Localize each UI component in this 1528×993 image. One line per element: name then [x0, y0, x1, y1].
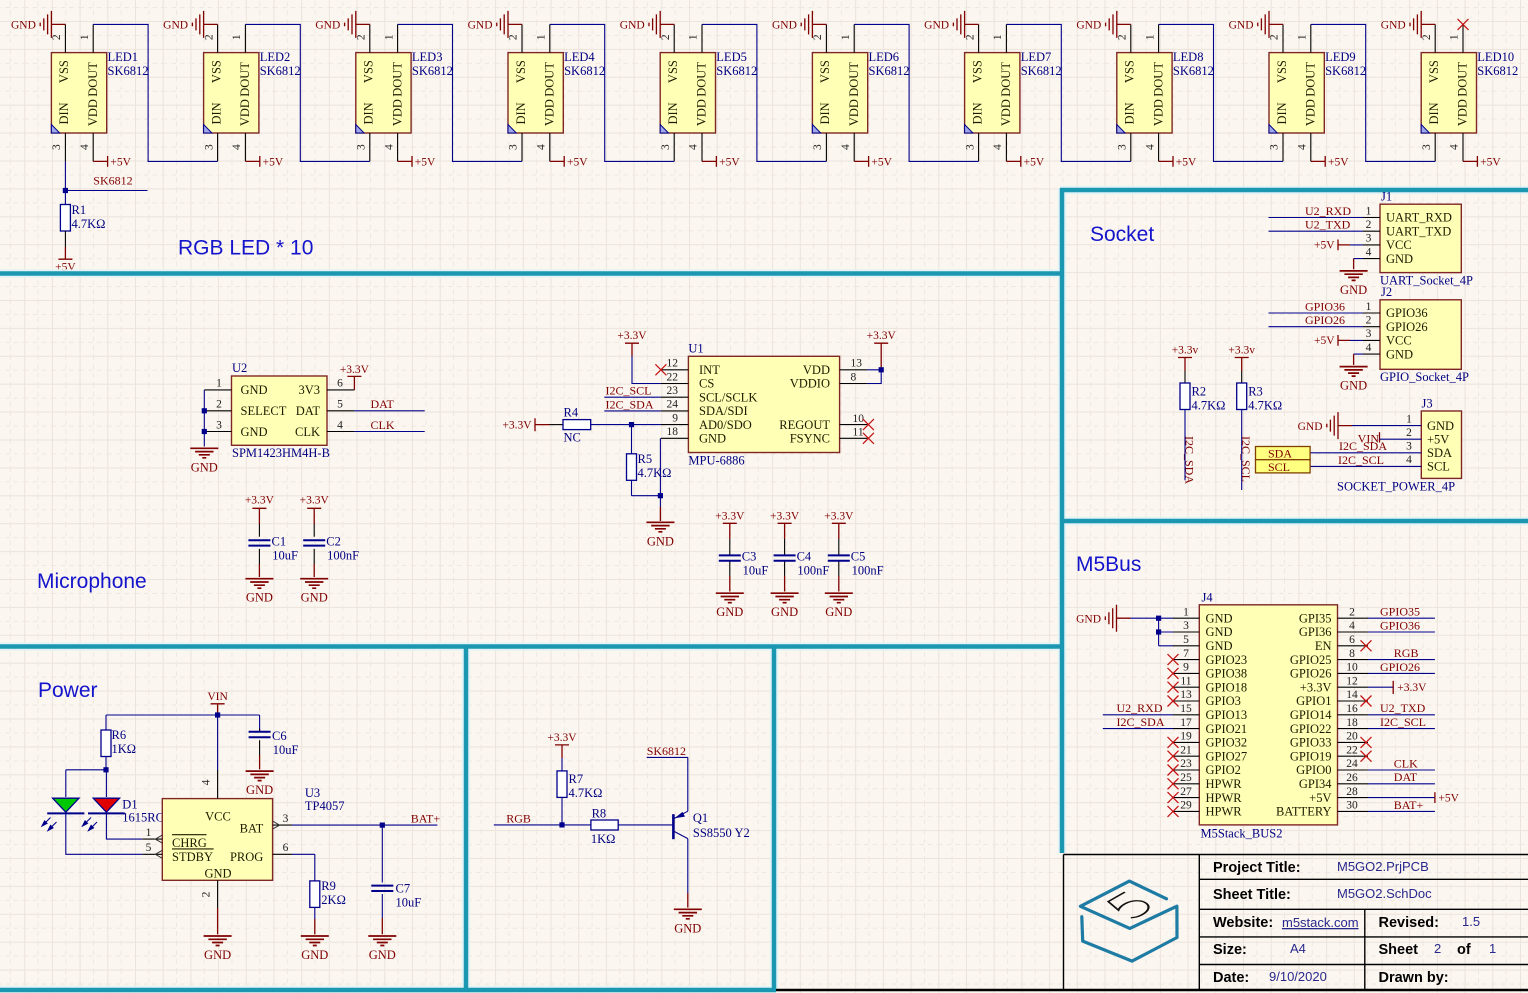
svg-text:SDA: SDA — [1427, 446, 1452, 460]
svg-text:25: 25 — [1180, 772, 1192, 784]
svg-text:2: 2 — [1366, 315, 1372, 327]
svg-text:GND: GND — [204, 867, 231, 881]
svg-text:M5Stack_BUS2: M5Stack_BUS2 — [1201, 827, 1283, 841]
svg-text:J3: J3 — [1422, 396, 1433, 410]
svg-text:3: 3 — [283, 813, 289, 825]
svg-text:2: 2 — [1406, 427, 1412, 439]
svg-text:1: 1 — [1183, 606, 1189, 618]
svg-text:100nF: 100nF — [852, 563, 884, 577]
svg-text:27: 27 — [1180, 786, 1192, 798]
svg-text:AD0/SDO: AD0/SDO — [699, 418, 752, 432]
svg-text:100nF: 100nF — [797, 563, 829, 577]
svg-text:A4: A4 — [1290, 941, 1306, 956]
svg-text:GPIO0: GPIO0 — [1296, 763, 1331, 777]
svg-text:SK6812: SK6812 — [647, 744, 686, 758]
svg-text:+3.3v: +3.3v — [1172, 345, 1199, 357]
svg-text:+3.3V: +3.3V — [502, 420, 532, 432]
svg-text:SK6812: SK6812 — [1325, 64, 1366, 78]
svg-text:SK6812: SK6812 — [564, 64, 605, 78]
svg-text:23: 23 — [1180, 758, 1192, 770]
svg-text:4.7KΩ: 4.7KΩ — [1248, 398, 1282, 412]
svg-text:+3.3V: +3.3V — [547, 732, 577, 744]
svg-text:7: 7 — [1183, 648, 1189, 660]
svg-text:GPIO35: GPIO35 — [1380, 605, 1420, 619]
svg-text:R6: R6 — [112, 728, 127, 742]
svg-text:C2: C2 — [326, 535, 341, 549]
svg-text:1KΩ: 1KΩ — [591, 832, 616, 846]
svg-text:R8: R8 — [592, 807, 607, 821]
svg-text:+5V: +5V — [1309, 791, 1331, 805]
svg-text:GPIO21: GPIO21 — [1206, 722, 1248, 736]
svg-text:1: 1 — [1366, 205, 1372, 217]
svg-text:GPIO18: GPIO18 — [1206, 680, 1248, 694]
svg-text:GPIO38: GPIO38 — [1206, 667, 1248, 681]
svg-text:VCC: VCC — [205, 810, 231, 824]
svg-text:23: 23 — [667, 385, 679, 397]
svg-text:SK6812: SK6812 — [260, 64, 301, 78]
svg-text:+3.3V: +3.3V — [824, 510, 854, 522]
svg-text:18: 18 — [1346, 717, 1358, 729]
svg-text:2: 2 — [216, 399, 222, 411]
svg-text:GPIO33: GPIO33 — [1290, 736, 1332, 750]
svg-text:GND: GND — [1427, 419, 1454, 433]
svg-text:19: 19 — [1180, 731, 1192, 743]
svg-text:8: 8 — [1349, 648, 1355, 660]
svg-text:1: 1 — [1366, 301, 1372, 313]
svg-text:R3: R3 — [1248, 385, 1263, 399]
svg-text:20: 20 — [1346, 731, 1358, 743]
svg-text:+3.3V: +3.3V — [867, 330, 897, 342]
svg-text:GPIO1: GPIO1 — [1296, 694, 1331, 708]
svg-text:CLK: CLK — [371, 418, 395, 432]
svg-text:I2C_SDA: I2C_SDA — [1183, 436, 1197, 484]
svg-text:+5V: +5V — [1427, 432, 1449, 446]
svg-text:12: 12 — [667, 358, 679, 370]
svg-text:LED9: LED9 — [1325, 50, 1356, 64]
svg-text:LED2: LED2 — [260, 50, 291, 64]
svg-text:+3.3V: +3.3V — [300, 495, 330, 507]
svg-text:GPIO32: GPIO32 — [1206, 736, 1248, 750]
svg-text:3: 3 — [216, 419, 222, 431]
svg-text:GPIO27: GPIO27 — [1206, 749, 1248, 763]
svg-text:10uF: 10uF — [743, 563, 769, 577]
svg-text:VDD: VDD — [803, 363, 830, 377]
svg-text:LED10: LED10 — [1477, 50, 1514, 64]
svg-text:R4: R4 — [564, 406, 579, 420]
svg-text:2: 2 — [1434, 941, 1441, 956]
svg-text:UART_Socket_4P: UART_Socket_4P — [1380, 274, 1473, 288]
svg-text:DAT: DAT — [371, 397, 395, 411]
svg-text:UART_RXD: UART_RXD — [1386, 211, 1452, 225]
svg-text:6: 6 — [283, 842, 289, 854]
svg-text:GPIO36: GPIO36 — [1305, 299, 1345, 313]
svg-text:SOCKET_POWER_4P: SOCKET_POWER_4P — [1337, 479, 1455, 493]
svg-text:BAT+: BAT+ — [1394, 798, 1424, 812]
svg-text:11: 11 — [1180, 675, 1191, 687]
svg-text:GND: GND — [1206, 625, 1233, 639]
svg-text:1: 1 — [146, 827, 152, 839]
svg-text:of: of — [1457, 942, 1471, 958]
svg-text:GPIO36: GPIO36 — [1380, 618, 1420, 632]
svg-text:SDA/SDI: SDA/SDI — [699, 404, 748, 418]
svg-text:GPIO14: GPIO14 — [1290, 708, 1332, 722]
svg-text:GPIO26: GPIO26 — [1386, 320, 1428, 334]
svg-text:13: 13 — [851, 358, 863, 370]
svg-text:+3.3V: +3.3V — [1397, 682, 1427, 694]
svg-text:10uF: 10uF — [396, 895, 422, 909]
svg-text:5: 5 — [146, 842, 152, 854]
svg-text:Power: Power — [38, 679, 98, 702]
svg-text:CLK: CLK — [1394, 756, 1418, 770]
svg-text:GPIO_Socket_4P: GPIO_Socket_4P — [1380, 370, 1469, 384]
svg-text:U2_TXD: U2_TXD — [1380, 701, 1426, 715]
svg-text:SK6812: SK6812 — [1021, 64, 1062, 78]
svg-text:GND: GND — [699, 432, 726, 446]
svg-text:5: 5 — [1183, 634, 1189, 646]
svg-text:SK6812: SK6812 — [716, 64, 757, 78]
svg-text:CLK: CLK — [295, 425, 320, 439]
svg-text:C5: C5 — [851, 550, 866, 564]
svg-text:TP4057: TP4057 — [305, 799, 345, 813]
svg-text:10uF: 10uF — [273, 743, 299, 757]
svg-text:m5stack.com: m5stack.com — [1282, 915, 1359, 930]
svg-text:SK6812: SK6812 — [93, 174, 132, 188]
svg-text:9/10/2020: 9/10/2020 — [1269, 969, 1327, 984]
svg-text:2: 2 — [1349, 606, 1355, 618]
svg-text:PROG: PROG — [230, 850, 263, 864]
svg-text:+3.3V: +3.3V — [770, 510, 800, 522]
svg-text:UART_TXD: UART_TXD — [1386, 224, 1451, 238]
svg-text:Project Title:: Project Title: — [1213, 860, 1301, 876]
svg-text:GND: GND — [241, 425, 268, 439]
svg-text:SK6812: SK6812 — [1477, 64, 1518, 78]
svg-text:GND: GND — [1386, 347, 1413, 361]
svg-text:GND: GND — [1386, 252, 1413, 266]
svg-text:SK6812: SK6812 — [108, 64, 149, 78]
svg-text:I2C_SCL: I2C_SCL — [1239, 436, 1253, 482]
svg-text:U2_RXD: U2_RXD — [1117, 701, 1163, 715]
svg-text:DAT: DAT — [1394, 770, 1418, 784]
svg-text:22: 22 — [667, 371, 679, 383]
svg-text:30: 30 — [1346, 800, 1358, 812]
svg-text:R1: R1 — [72, 203, 87, 217]
svg-text:C1: C1 — [272, 535, 287, 549]
svg-text:SCL: SCL — [1427, 460, 1450, 474]
svg-text:21: 21 — [1180, 744, 1192, 756]
svg-text:4.7KΩ: 4.7KΩ — [72, 217, 106, 231]
svg-text:I2C_SCL: I2C_SCL — [606, 384, 652, 398]
svg-text:M5GO2.SchDoc: M5GO2.SchDoc — [1337, 886, 1432, 901]
svg-text:Sheet Title:: Sheet Title: — [1213, 887, 1291, 903]
svg-text:GND: GND — [241, 383, 268, 397]
svg-text:I2C_SDA: I2C_SDA — [1339, 439, 1387, 453]
svg-text:HPWR: HPWR — [1206, 777, 1243, 791]
svg-text:GPI36: GPI36 — [1299, 625, 1332, 639]
svg-text:SDA: SDA — [1268, 447, 1292, 461]
svg-text:6: 6 — [337, 378, 343, 390]
svg-text:INT: INT — [699, 363, 720, 377]
svg-text:M5GO2.PrjPCB: M5GO2.PrjPCB — [1337, 859, 1429, 874]
svg-text:1: 1 — [1489, 941, 1496, 956]
svg-text:R9: R9 — [321, 879, 336, 893]
svg-text:2: 2 — [1366, 219, 1372, 231]
svg-text:CHRG: CHRG — [172, 836, 207, 850]
svg-text:VIN: VIN — [207, 691, 228, 703]
svg-text:HPWR: HPWR — [1206, 805, 1243, 819]
svg-text:STDBY: STDBY — [172, 850, 213, 864]
svg-text:GPIO25: GPIO25 — [1290, 653, 1332, 667]
svg-text:+3.3v: +3.3v — [1228, 345, 1255, 357]
svg-text:3V3: 3V3 — [298, 383, 320, 397]
svg-text:10uF: 10uF — [272, 548, 298, 562]
svg-text:FSYNC: FSYNC — [790, 432, 830, 446]
svg-text:I2C_SDA: I2C_SDA — [1117, 715, 1165, 729]
svg-text:LED7: LED7 — [1021, 50, 1052, 64]
svg-text:NC: NC — [564, 431, 581, 445]
svg-text:LED6: LED6 — [869, 50, 900, 64]
svg-text:Revised:: Revised: — [1379, 915, 1439, 931]
svg-text:3: 3 — [1406, 441, 1412, 453]
svg-text:+5V: +5V — [1314, 335, 1335, 347]
svg-text:GPIO22: GPIO22 — [1290, 722, 1332, 736]
svg-text:GND: GND — [1206, 611, 1233, 625]
svg-text:28: 28 — [1346, 786, 1358, 798]
svg-text:2: 2 — [201, 891, 213, 897]
svg-text:3: 3 — [1366, 233, 1372, 245]
svg-text:17: 17 — [1180, 717, 1192, 729]
svg-text:VCC: VCC — [1386, 238, 1412, 252]
svg-text:14: 14 — [1346, 689, 1358, 701]
svg-text:GPIO36: GPIO36 — [1386, 306, 1428, 320]
svg-text:I2C_SDA: I2C_SDA — [606, 397, 654, 411]
svg-text:U1: U1 — [688, 342, 703, 356]
svg-text:GPIO23: GPIO23 — [1206, 653, 1248, 667]
svg-text:24: 24 — [667, 399, 679, 411]
svg-text:BAT: BAT — [240, 822, 264, 836]
svg-text:GPIO3: GPIO3 — [1206, 694, 1241, 708]
svg-text:5: 5 — [337, 399, 343, 411]
svg-text:SK6812: SK6812 — [1173, 64, 1214, 78]
svg-text:VCC: VCC — [1386, 334, 1412, 348]
svg-text:GPIO19: GPIO19 — [1290, 749, 1332, 763]
svg-text:DAT: DAT — [296, 404, 321, 418]
svg-text:REGOUT: REGOUT — [779, 418, 830, 432]
svg-text:Drawn by:: Drawn by: — [1379, 970, 1449, 986]
svg-text:VDDIO: VDDIO — [790, 377, 830, 391]
svg-text:4: 4 — [1349, 620, 1355, 632]
svg-text:4: 4 — [337, 419, 343, 431]
svg-text:RGB: RGB — [1394, 646, 1419, 660]
svg-text:Q1: Q1 — [693, 811, 708, 825]
svg-text:C4: C4 — [797, 550, 812, 564]
svg-text:+3.3V: +3.3V — [1300, 680, 1332, 694]
svg-text:+3.3V: +3.3V — [245, 495, 275, 507]
svg-text:Socket: Socket — [1090, 223, 1154, 246]
svg-text:29: 29 — [1180, 800, 1192, 812]
svg-text:GPI35: GPI35 — [1299, 611, 1332, 625]
svg-text:SCL/SCLK: SCL/SCLK — [699, 390, 757, 404]
svg-text:C3: C3 — [742, 550, 757, 564]
svg-text:GPIO26: GPIO26 — [1305, 313, 1345, 327]
svg-text:4.7KΩ: 4.7KΩ — [1192, 398, 1226, 412]
svg-text:HPWR: HPWR — [1206, 791, 1243, 805]
svg-text:U2_TXD: U2_TXD — [1305, 218, 1351, 232]
svg-text:+3.3V: +3.3V — [715, 510, 745, 522]
svg-text:+5V: +5V — [1314, 240, 1335, 252]
svg-text:J1: J1 — [1381, 190, 1392, 204]
svg-text:26: 26 — [1346, 772, 1358, 784]
svg-text:4: 4 — [1406, 454, 1412, 466]
svg-text:+5V: +5V — [1438, 793, 1459, 805]
svg-text:1KΩ: 1KΩ — [112, 742, 137, 756]
svg-text:J4: J4 — [1202, 590, 1214, 604]
svg-text:1.5: 1.5 — [1462, 914, 1480, 929]
svg-text:MPU-6886: MPU-6886 — [688, 454, 744, 468]
svg-text:4: 4 — [1366, 246, 1372, 258]
svg-text:10: 10 — [1346, 662, 1358, 674]
svg-text:D1: D1 — [122, 798, 137, 812]
svg-text:11: 11 — [853, 427, 864, 439]
svg-text:LED1: LED1 — [108, 50, 139, 64]
svg-text:9: 9 — [1183, 662, 1189, 674]
svg-text:BAT+: BAT+ — [411, 811, 441, 825]
svg-text:4: 4 — [201, 779, 213, 785]
svg-text:RGB LED * 10: RGB LED * 10 — [178, 237, 313, 260]
svg-text:LED4: LED4 — [564, 50, 595, 64]
svg-text:U2_RXD: U2_RXD — [1305, 204, 1351, 218]
svg-text:GND: GND — [1206, 639, 1233, 653]
svg-text:SPM1423HM4H-B: SPM1423HM4H-B — [232, 446, 330, 460]
svg-text:GPI34: GPI34 — [1299, 777, 1332, 791]
svg-text:LED5: LED5 — [716, 50, 747, 64]
svg-text:U2: U2 — [232, 361, 247, 375]
svg-text:M5Bus: M5Bus — [1076, 553, 1141, 576]
svg-text:Date:: Date: — [1213, 970, 1249, 986]
svg-text:GPIO13: GPIO13 — [1206, 708, 1248, 722]
svg-text:GPIO26: GPIO26 — [1380, 660, 1420, 674]
svg-text:6: 6 — [1349, 634, 1355, 646]
svg-text:I2C_SCL: I2C_SCL — [1338, 453, 1384, 467]
svg-text:100nF: 100nF — [327, 548, 359, 562]
svg-text:+3.3V: +3.3V — [340, 364, 370, 376]
svg-text:LED3: LED3 — [412, 50, 443, 64]
svg-text:4.7KΩ: 4.7KΩ — [569, 786, 603, 800]
svg-text:16: 16 — [1346, 703, 1358, 715]
svg-text:12: 12 — [1346, 675, 1358, 687]
svg-text:1: 1 — [1406, 413, 1412, 425]
svg-text:SK6812: SK6812 — [869, 64, 910, 78]
svg-text:22: 22 — [1346, 744, 1358, 756]
svg-text:I2C_SCL: I2C_SCL — [1380, 715, 1426, 729]
svg-text:18: 18 — [667, 426, 679, 438]
svg-text:3: 3 — [1183, 620, 1189, 632]
svg-text:R5: R5 — [638, 452, 653, 466]
svg-text:+3.3V: +3.3V — [617, 330, 647, 342]
svg-text:CS: CS — [699, 377, 714, 391]
svg-text:GPIO26: GPIO26 — [1290, 667, 1332, 681]
svg-text:4: 4 — [1366, 342, 1372, 354]
svg-text:Sheet: Sheet — [1379, 942, 1419, 958]
svg-text:J2: J2 — [1381, 285, 1392, 299]
svg-text:1: 1 — [216, 378, 222, 390]
svg-text:Microphone: Microphone — [37, 570, 147, 593]
svg-text:RGB: RGB — [506, 811, 531, 825]
svg-text:SS8550 Y2: SS8550 Y2 — [693, 826, 750, 840]
svg-text:U3: U3 — [305, 786, 320, 800]
svg-text:SCL: SCL — [1268, 460, 1290, 474]
svg-text:1615RG: 1615RG — [122, 811, 164, 825]
svg-text:BATTERY: BATTERY — [1276, 805, 1332, 819]
svg-text:24: 24 — [1346, 758, 1358, 770]
svg-text:Website:: Website: — [1213, 915, 1273, 931]
svg-text:15: 15 — [1180, 703, 1192, 715]
svg-text:4.7KΩ: 4.7KΩ — [638, 466, 672, 480]
svg-text:EN: EN — [1315, 639, 1332, 653]
svg-text:9: 9 — [672, 412, 678, 424]
svg-text:Size:: Size: — [1213, 942, 1247, 958]
svg-text:LED8: LED8 — [1173, 50, 1204, 64]
svg-text:GPIO2: GPIO2 — [1206, 763, 1241, 777]
svg-text:C7: C7 — [396, 882, 411, 896]
svg-text:10: 10 — [853, 413, 865, 425]
svg-text:C6: C6 — [272, 729, 287, 743]
svg-text:13: 13 — [1180, 689, 1192, 701]
svg-text:2KΩ: 2KΩ — [321, 893, 346, 907]
svg-text:8: 8 — [851, 371, 857, 383]
svg-text:3: 3 — [1366, 328, 1372, 340]
svg-text:R2: R2 — [1192, 385, 1207, 399]
svg-text:SK6812: SK6812 — [412, 64, 453, 78]
svg-text:R7: R7 — [569, 772, 584, 786]
svg-text:SELECT: SELECT — [241, 404, 287, 418]
